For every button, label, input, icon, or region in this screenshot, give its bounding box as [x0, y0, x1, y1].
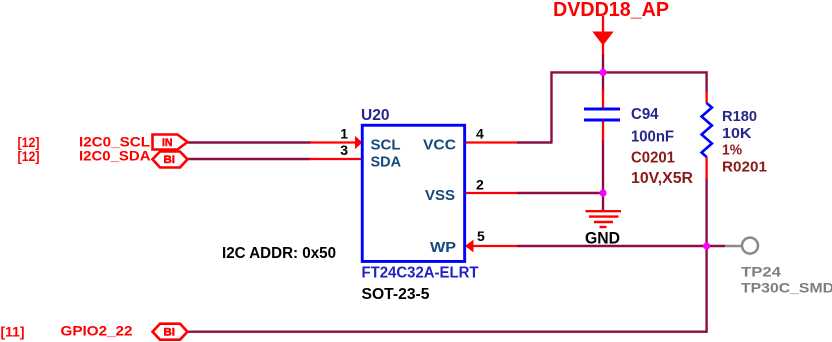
svg-text:VSS: VSS	[425, 187, 455, 204]
svg-text:R0201: R0201	[722, 159, 767, 176]
svg-text:U20: U20	[361, 107, 390, 124]
svg-text:SCL: SCL	[371, 136, 401, 153]
svg-text:I2C ADDR: 0x50: I2C ADDR: 0x50	[222, 245, 336, 262]
svg-text:IN: IN	[162, 137, 173, 149]
svg-text:I2C0_SDA: I2C0_SDA	[79, 147, 151, 163]
svg-text:SOT-23-5: SOT-23-5	[362, 286, 430, 303]
svg-text:[12]: [12]	[18, 148, 40, 164]
svg-text:R180: R180	[722, 108, 757, 125]
svg-text:TP24: TP24	[741, 264, 781, 280]
svg-text:BI: BI	[164, 154, 176, 166]
svg-text:3: 3	[340, 142, 348, 158]
svg-text:4: 4	[476, 126, 484, 142]
svg-text:1: 1	[340, 126, 348, 142]
svg-text:DVDD18_AP: DVDD18_AP	[553, 0, 669, 21]
svg-text:[11]: [11]	[1, 324, 25, 340]
svg-text:10V,X5R: 10V,X5R	[631, 170, 693, 187]
svg-text:GPIO2_22: GPIO2_22	[61, 323, 133, 339]
svg-text:10K: 10K	[722, 125, 752, 142]
svg-text:5: 5	[477, 228, 485, 244]
svg-text:1%: 1%	[722, 142, 742, 159]
svg-text:TP30C_SMD: TP30C_SMD	[741, 280, 832, 296]
svg-text:C0201: C0201	[631, 150, 675, 167]
svg-text:C94: C94	[631, 106, 659, 123]
svg-text:FT24C32A-ELRT: FT24C32A-ELRT	[362, 265, 480, 282]
svg-text:GND: GND	[585, 228, 620, 247]
svg-text:SDA: SDA	[371, 154, 402, 171]
svg-text:VCC: VCC	[423, 136, 456, 153]
svg-text:BI: BI	[164, 327, 176, 339]
svg-text:2: 2	[476, 177, 484, 193]
svg-text:WP: WP	[430, 239, 456, 256]
svg-text:100nF: 100nF	[631, 129, 674, 146]
